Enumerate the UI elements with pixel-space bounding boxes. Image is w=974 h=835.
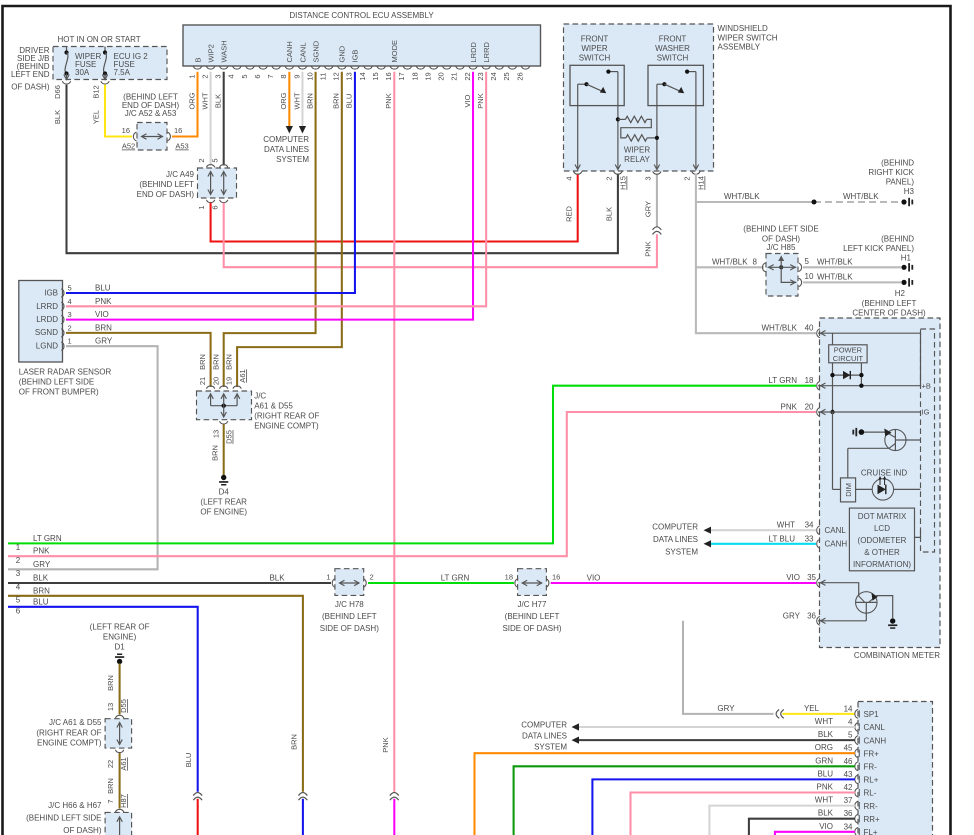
svg-text:43: 43 <box>844 770 853 779</box>
svg-text:H14: H14 <box>697 176 706 190</box>
svg-text:42: 42 <box>844 783 853 792</box>
svg-text:5: 5 <box>16 596 21 605</box>
svg-text:ENGINE): ENGINE) <box>103 632 137 641</box>
svg-text:DATA LINES: DATA LINES <box>653 535 698 544</box>
skid control ECU connector box <box>858 702 933 835</box>
wire ORG from J/C A53 to ECU pin 1 <box>172 72 198 137</box>
svg-text:20: 20 <box>805 403 814 412</box>
svg-text:(BEHIND LEFT: (BEHIND LEFT <box>505 612 560 621</box>
svg-text:RR+: RR+ <box>864 815 881 824</box>
fuse WIPER FUSE 30A <box>53 47 101 99</box>
wire LT BLU from meter pin 33 CANH to computer data lines <box>711 543 816 545</box>
wire BRN from ECU pin 12 GND to J/C A61 pin 19 <box>237 72 342 387</box>
svg-text:CANL: CANL <box>825 526 847 535</box>
svg-text:40: 40 <box>805 324 814 333</box>
svg-text:HOT IN ON OR START: HOT IN ON OR START <box>58 35 141 44</box>
svg-text:WHT/BLK: WHT/BLK <box>712 258 748 267</box>
svg-text:3: 3 <box>214 74 223 78</box>
svg-text:WHT/BLK: WHT/BLK <box>761 324 797 333</box>
svg-text:RL+: RL+ <box>864 776 879 785</box>
svg-text:FR+: FR+ <box>864 749 880 758</box>
svg-text:10: 10 <box>805 272 814 281</box>
svg-text:PNK: PNK <box>817 783 834 792</box>
svg-text:D55: D55 <box>225 430 234 444</box>
svg-text:(BEHIND LEFT: (BEHIND LEFT <box>862 299 917 308</box>
svg-text:LRRD: LRRD <box>482 41 491 62</box>
svg-text:PNK: PNK <box>781 403 798 412</box>
svg-text:WHT/BLK: WHT/BLK <box>817 273 853 282</box>
svg-text:16: 16 <box>174 126 182 135</box>
svg-text:16: 16 <box>552 573 560 582</box>
wire WHT to skid ECU pin 37 RR- <box>709 796 855 835</box>
svg-text:J/C H77: J/C H77 <box>518 600 547 609</box>
wire YEL from fuse B12 to J/C A52 pin 16 <box>92 85 132 137</box>
wire PNK from J/C A49 pin 6 to washer switch break <box>224 203 657 267</box>
svg-text:J/C A52 & A53: J/C A52 & A53 <box>125 109 177 118</box>
circuit 3 GRY label at left edge <box>16 560 51 578</box>
svg-text:BRN: BRN <box>305 93 314 109</box>
svg-text:BRN: BRN <box>210 445 219 461</box>
svg-text:WASH: WASH <box>220 40 229 62</box>
svg-text:4: 4 <box>68 297 72 306</box>
svg-text:H2: H2 <box>895 289 906 298</box>
svg-text:1: 1 <box>16 543 21 552</box>
svg-text:& OTHER: & OTHER <box>864 548 900 557</box>
wire WHT from ECU pin 9 to computer data lines <box>299 72 306 134</box>
svg-text:DIM: DIM <box>844 483 853 497</box>
svg-text:18: 18 <box>805 376 814 385</box>
svg-text:WIPER: WIPER <box>581 44 607 53</box>
svg-text:13: 13 <box>345 72 354 80</box>
wire WHT/BLK from H85 pin 10 to ground H2 <box>803 281 901 283</box>
svg-text:IGB: IGB <box>44 289 58 298</box>
svg-text:VIO: VIO <box>819 822 833 831</box>
svg-text:20: 20 <box>211 377 220 385</box>
svg-text:LEFT KICK PANEL): LEFT KICK PANEL) <box>843 244 914 253</box>
svg-text:SYSTEM: SYSTEM <box>665 548 698 557</box>
wire BRN from ECU pin 10 SGND to J/C A61 pin 20 <box>224 72 316 387</box>
svg-text:4: 4 <box>848 718 853 727</box>
svg-text:COMBINATION METER: COMBINATION METER <box>854 651 940 660</box>
ground D1 left rear of engine <box>90 623 150 665</box>
svg-text:22: 22 <box>106 760 115 768</box>
svg-text:BLU: BLU <box>345 94 354 109</box>
svg-text:WIPER SWITCH: WIPER SWITCH <box>718 33 778 42</box>
svg-text:FL+: FL+ <box>864 828 878 835</box>
svg-text:PNK: PNK <box>33 547 50 556</box>
svg-text:PNK: PNK <box>95 297 112 306</box>
wire PNK to skid ECU pin 42 RL- <box>631 783 856 835</box>
junction connector H66 and H67 <box>26 801 132 835</box>
svg-text:VIO: VIO <box>95 310 109 319</box>
svg-text:VIO: VIO <box>463 94 472 107</box>
wire BLK from skid ECU pin 5 CANH to computer data lines <box>579 730 855 740</box>
wire BLK from fuse D66 to front wiper switch pin 2 <box>53 85 618 254</box>
svg-text:12: 12 <box>332 72 341 80</box>
ECU connector pin arcs and pin numbers 1-26 <box>187 66 529 80</box>
svg-text:33: 33 <box>805 534 814 543</box>
svg-text:END OF DASH): END OF DASH) <box>137 190 195 199</box>
svg-text:7: 7 <box>106 799 115 803</box>
wire VIO from J/C H77 pin 16 to meter pin 35 <box>551 574 816 584</box>
junction connector A52 and A53 <box>122 93 189 151</box>
junction connector H85 <box>712 225 853 297</box>
wire WHT from skid ECU pin 4 CANL to computer data lines <box>579 717 855 727</box>
svg-text:8: 8 <box>753 258 758 267</box>
transistor Q2 in meter <box>818 583 893 621</box>
svg-text:OF DASH): OF DASH) <box>63 826 102 835</box>
svg-text:DOT MATRIX: DOT MATRIX <box>858 512 907 521</box>
svg-text:9: 9 <box>292 74 301 78</box>
svg-text:4: 4 <box>16 583 21 592</box>
svg-text:CANL: CANL <box>864 723 886 732</box>
svg-text:15: 15 <box>371 72 380 80</box>
svg-text:FRONT: FRONT <box>659 35 687 44</box>
wire BRN from J/C A61 pin 22 to J/C H87 pin 7 <box>106 753 128 809</box>
wire BRN circuit 5 from left edge down with break to BLU <box>8 586 307 835</box>
svg-text:(BEHIND LEFT: (BEHIND LEFT <box>139 180 194 189</box>
svg-text:5: 5 <box>805 257 810 266</box>
wire BLU from ECU pin 13 IGB to laser radar sensor pin 5 <box>66 72 355 293</box>
svg-text:LRDD: LRDD <box>36 315 58 324</box>
svg-text:H87: H87 <box>119 794 128 808</box>
svg-text:7.5A: 7.5A <box>114 68 131 77</box>
svg-text:YEL: YEL <box>804 704 820 713</box>
svg-text:5: 5 <box>240 74 249 78</box>
wire GRY from meter pin 36 to break and YEL to skid ECU pin 14 <box>683 621 855 719</box>
svg-text:GRY: GRY <box>95 337 113 346</box>
wire PNK from ECU pin 16 MODE down to break and VIO <box>381 72 399 835</box>
svg-text:BRN: BRN <box>106 675 115 691</box>
svg-text:6: 6 <box>16 607 21 616</box>
svg-text:BLU: BLU <box>817 769 833 778</box>
power circuit box <box>829 333 867 412</box>
svg-text:VIO: VIO <box>786 573 800 582</box>
svg-text:5: 5 <box>210 158 219 162</box>
svg-text:ORG: ORG <box>187 92 196 109</box>
svg-text:LGND: LGND <box>36 342 58 351</box>
svg-text:25: 25 <box>502 72 511 80</box>
wire WHT from meter pin 34 CANL to computer data lines <box>711 529 816 531</box>
svg-text:A52: A52 <box>122 142 135 151</box>
svg-text:BRN: BRN <box>289 734 298 750</box>
svg-text:16: 16 <box>122 126 130 135</box>
ECU wire color labels <box>187 92 485 110</box>
wire BLK from ECU pin 3 to J/C A49 pin 5 <box>223 72 225 166</box>
svg-text:18: 18 <box>410 72 419 80</box>
svg-text:COMPUTER: COMPUTER <box>263 135 309 144</box>
svg-text:21: 21 <box>450 72 459 80</box>
svg-text:WHT/BLK: WHT/BLK <box>817 258 853 267</box>
svg-text:B12: B12 <box>92 85 101 98</box>
svg-text:17: 17 <box>397 72 406 80</box>
svg-text:4: 4 <box>564 176 573 180</box>
computer data lines system label middle with arrows <box>652 523 711 557</box>
svg-text:(ODOMETER: (ODOMETER <box>858 536 907 545</box>
ground D4 left rear of engine <box>200 475 247 517</box>
svg-text:2: 2 <box>197 158 206 162</box>
wire WHT/BLK from washer pin 2 H14 to H3 / J/C H85 / meter pin 40 <box>696 174 901 334</box>
svg-text:BLK: BLK <box>818 730 834 739</box>
svg-text:4: 4 <box>227 74 236 78</box>
svg-text:ENGINE COMPT): ENGINE COMPT) <box>254 422 319 431</box>
svg-text:35: 35 <box>807 573 816 582</box>
svg-text:D4: D4 <box>219 488 230 497</box>
svg-text:1: 1 <box>187 74 196 78</box>
svg-text:(BEHIND LEFT SIDE: (BEHIND LEFT SIDE <box>26 814 101 823</box>
wire PNK circuit 2 from left edge to meter pin 20 <box>8 412 816 565</box>
junction connector A61 and D55 right rear of engine compartment <box>197 354 320 444</box>
svg-text:BLU: BLU <box>95 284 111 293</box>
distance control ECU assembly <box>183 11 541 66</box>
svg-text:WHT: WHT <box>815 717 833 726</box>
wire BLU to skid ECU pin 43 RL+ <box>592 769 855 835</box>
junction connector A61 and D55 second <box>36 699 131 771</box>
wire VIO from ECU pin 22 to laser radar sensor pin 3 LRDD <box>66 72 473 320</box>
svg-text:2: 2 <box>370 573 374 582</box>
svg-text:2: 2 <box>605 176 614 180</box>
svg-text:FR-: FR- <box>864 763 878 772</box>
svg-text:ORG: ORG <box>279 92 288 109</box>
wire BRN from J/C D55 pin 13 to ground D4 <box>210 424 223 475</box>
svg-text:7: 7 <box>266 74 275 78</box>
transistor Q1 in meter <box>848 428 921 478</box>
ground H3 behind right kick panel <box>868 159 914 207</box>
svg-text:D55: D55 <box>119 699 128 713</box>
meter connector pin arcs chevrons numbers and labels <box>761 324 825 626</box>
wire BRN from laser SGND to J/C A61 pin 21 <box>66 333 211 387</box>
svg-text:BLK: BLK <box>818 809 834 818</box>
svg-text:3: 3 <box>643 176 652 180</box>
svg-text:RIGHT KICK: RIGHT KICK <box>868 168 914 177</box>
svg-text:WHT: WHT <box>777 521 795 530</box>
svg-text:14: 14 <box>844 704 853 713</box>
svg-text:LASER RADAR SENSOR: LASER RADAR SENSOR <box>19 368 112 377</box>
driver side J/B fuse box <box>11 35 167 92</box>
svg-text:IGB: IGB <box>351 50 360 63</box>
svg-text:45: 45 <box>844 744 853 753</box>
svg-text:GRY: GRY <box>783 611 801 620</box>
svg-text:WIP2: WIP2 <box>206 44 215 62</box>
svg-text:14: 14 <box>358 72 367 80</box>
svg-text:GRY: GRY <box>717 704 735 713</box>
svg-text:+B: +B <box>922 381 931 390</box>
svg-text:CIRCUIT: CIRCUIT <box>833 354 864 363</box>
svg-text:WHT/BLK: WHT/BLK <box>843 192 879 201</box>
svg-text:BLK: BLK <box>33 574 49 583</box>
svg-text:RL-: RL- <box>864 789 877 798</box>
svg-text:11: 11 <box>319 73 328 81</box>
svg-text:1: 1 <box>68 337 72 346</box>
cruise indicator LED <box>856 468 921 500</box>
laser radar sensor <box>19 281 113 397</box>
svg-text:J/C: J/C <box>254 392 266 401</box>
svg-text:H15: H15 <box>619 176 628 190</box>
svg-text:(RIGHT REAR OF: (RIGHT REAR OF <box>36 728 101 737</box>
svg-text:OF DASH): OF DASH) <box>11 83 50 92</box>
svg-text:DATA LINES: DATA LINES <box>522 732 567 741</box>
svg-text:VIO: VIO <box>587 574 601 583</box>
svg-text:BLK: BLK <box>214 94 223 108</box>
svg-text:CANH: CANH <box>825 540 848 549</box>
svg-text:SWITCH: SWITCH <box>657 54 689 63</box>
svg-text:SYSTEM: SYSTEM <box>276 155 309 164</box>
svg-text:DATA LINES: DATA LINES <box>264 145 309 154</box>
svg-text:INFORMATION): INFORMATION) <box>853 560 911 569</box>
svg-text:D66: D66 <box>53 85 62 99</box>
svg-text:46: 46 <box>844 757 853 766</box>
wire LT GRN from J/C H78 pin 2 to J/C H77 pin 18 <box>368 574 514 584</box>
svg-text:30A: 30A <box>75 68 90 77</box>
wire PNK from ECU pin 23 to laser radar sensor pin 4 LRRD <box>66 72 486 306</box>
svg-text:(BEHIND: (BEHIND <box>881 159 914 168</box>
svg-text:CANL: CANL <box>298 42 307 62</box>
svg-text:34: 34 <box>844 822 853 831</box>
svg-text:SWITCH: SWITCH <box>579 54 611 63</box>
svg-text:(BEHIND LEFT SIDE: (BEHIND LEFT SIDE <box>19 377 94 386</box>
svg-text:2: 2 <box>200 74 209 78</box>
svg-text:LEFT END: LEFT END <box>11 70 50 79</box>
svg-text:2: 2 <box>16 556 21 565</box>
svg-text:COMPUTER: COMPUTER <box>652 523 698 532</box>
wiper relay resistors <box>616 116 659 164</box>
meter pin 40 wire and +B node <box>818 333 931 390</box>
computer data lines system label bottom with arrows <box>521 721 579 752</box>
svg-text:1: 1 <box>197 205 206 209</box>
svg-text:GRY: GRY <box>643 201 652 217</box>
svg-text:LRRD: LRRD <box>36 302 58 311</box>
front washer switch <box>648 35 703 170</box>
wire VIO to skid ECU pin 34 FL+ <box>775 822 855 835</box>
svg-text:(LEFT REAR OF: (LEFT REAR OF <box>90 623 150 632</box>
svg-text:RELAY: RELAY <box>624 155 650 164</box>
junction connector H77 <box>502 569 561 633</box>
svg-text:PNK: PNK <box>384 93 393 108</box>
svg-text:H1: H1 <box>901 254 912 263</box>
svg-text:22: 22 <box>463 72 472 80</box>
svg-text:BRN: BRN <box>225 354 234 370</box>
svg-text:6: 6 <box>253 74 262 78</box>
svg-text:SGND: SGND <box>311 40 320 62</box>
wire WHT/BLK from H85 pin 5 to ground H1 <box>803 266 901 268</box>
svg-text:WIPER: WIPER <box>624 146 650 155</box>
svg-text:J/C H85: J/C H85 <box>767 243 796 252</box>
svg-text:21: 21 <box>198 377 207 385</box>
svg-text:ORG: ORG <box>815 743 833 752</box>
svg-text:RR-: RR- <box>864 802 879 811</box>
ECU pin name labels <box>193 40 491 63</box>
svg-text:H3: H3 <box>904 187 915 196</box>
wire BRN from D1 to J/C D55 pin 13 <box>106 664 120 715</box>
svg-text:BRN: BRN <box>211 354 220 370</box>
svg-text:(BEHIND LEFT SIDE: (BEHIND LEFT SIDE <box>743 225 818 234</box>
svg-text:GRY: GRY <box>33 560 51 569</box>
svg-text:36: 36 <box>844 809 853 818</box>
svg-text:8: 8 <box>279 74 288 78</box>
wire ORG from ECU pin 8 to computer data lines <box>286 72 293 134</box>
svg-text:3: 3 <box>16 569 21 578</box>
svg-text:(RIGHT REAR OF: (RIGHT REAR OF <box>254 412 319 421</box>
dot matrix LCD box <box>849 508 920 571</box>
svg-text:36: 36 <box>807 611 816 620</box>
svg-text:YEL: YEL <box>92 110 101 124</box>
svg-text:1: 1 <box>326 573 330 582</box>
svg-text:(BEHIND LEFT: (BEHIND LEFT <box>322 612 377 621</box>
svg-text:IG: IG <box>922 408 930 417</box>
DIM box <box>833 412 856 502</box>
svg-text:BLK: BLK <box>605 207 614 221</box>
svg-text:J/C A61 & D55: J/C A61 & D55 <box>49 718 102 727</box>
svg-text:LT GRN: LT GRN <box>441 574 470 583</box>
svg-text:BRN: BRN <box>33 586 50 595</box>
windshield wiper switch assembly box <box>564 24 778 171</box>
svg-text:LCD: LCD <box>874 524 890 533</box>
svg-text:PNK: PNK <box>643 241 652 256</box>
svg-text:SP1: SP1 <box>864 710 880 719</box>
svg-text:PNK: PNK <box>381 737 390 752</box>
svg-text:16: 16 <box>384 72 393 80</box>
svg-text:DISTANCE CONTROL ECU ASSEMBLY: DISTANCE CONTROL ECU ASSEMBLY <box>289 11 434 20</box>
wire LT GRN circuit 1 from left edge to meter pin 18 <box>8 386 816 552</box>
svg-text:CRUISE IND: CRUISE IND <box>861 468 907 477</box>
svg-text:(LEFT REAR: (LEFT REAR <box>200 497 247 506</box>
svg-text:BRN: BRN <box>106 778 115 794</box>
svg-text:WHT/BLK: WHT/BLK <box>724 192 760 201</box>
svg-text:24: 24 <box>489 72 498 80</box>
svg-text:23: 23 <box>476 72 485 80</box>
wire WHT from ECU pin 2 to J/C A49 pin 2 <box>210 72 212 166</box>
svg-text:20: 20 <box>437 72 446 80</box>
junction connector H78 <box>320 569 379 633</box>
svg-text:GRN: GRN <box>815 756 833 765</box>
svg-text:BLU: BLU <box>33 597 49 606</box>
svg-text:BRN: BRN <box>95 323 112 332</box>
svg-text:BLK: BLK <box>269 574 285 583</box>
svg-text:MODE: MODE <box>390 40 399 63</box>
svg-text:6: 6 <box>210 205 219 209</box>
svg-text:RED: RED <box>564 206 573 222</box>
svg-text:WASHER: WASHER <box>655 44 690 53</box>
svg-text:A61 & D55: A61 & D55 <box>254 402 293 411</box>
svg-text:PNK: PNK <box>476 93 485 108</box>
wire GRN to skid ECU pin 46 FR- <box>514 756 855 835</box>
svg-text:GND: GND <box>338 45 347 62</box>
svg-text:BRN: BRN <box>198 354 207 370</box>
wire RED from J/C A49 pin 1 to front wiper switch pin 4 <box>211 174 578 242</box>
svg-text:WHT: WHT <box>200 92 209 109</box>
svg-text:WHT: WHT <box>292 92 301 109</box>
meter CANL CANH labels <box>825 526 848 549</box>
svg-text:19: 19 <box>225 377 234 385</box>
svg-text:SGND: SGND <box>35 328 58 337</box>
wire GRY from front washer switch pin 3 with break to PNK <box>643 174 661 235</box>
svg-text:J/C H66 & H67: J/C H66 & H67 <box>48 801 102 810</box>
svg-text:BRN: BRN <box>332 93 341 109</box>
svg-text:5: 5 <box>68 284 72 293</box>
svg-text:A53: A53 <box>175 142 188 151</box>
svg-text:2: 2 <box>68 323 72 332</box>
front wiper switch <box>570 35 624 170</box>
svg-text:CANH: CANH <box>285 41 294 62</box>
wire BLK to skid ECU pin 36 RR+ <box>749 809 855 835</box>
computer data lines system label top <box>263 135 309 164</box>
svg-text:ASSEMBLY: ASSEMBLY <box>718 43 761 52</box>
svg-text:J/C H78: J/C H78 <box>335 600 364 609</box>
svg-text:37: 37 <box>844 796 853 805</box>
wiper assembly pin arcs and labels <box>564 171 705 222</box>
svg-text:A61: A61 <box>238 369 247 382</box>
ground H2 <box>852 278 926 317</box>
